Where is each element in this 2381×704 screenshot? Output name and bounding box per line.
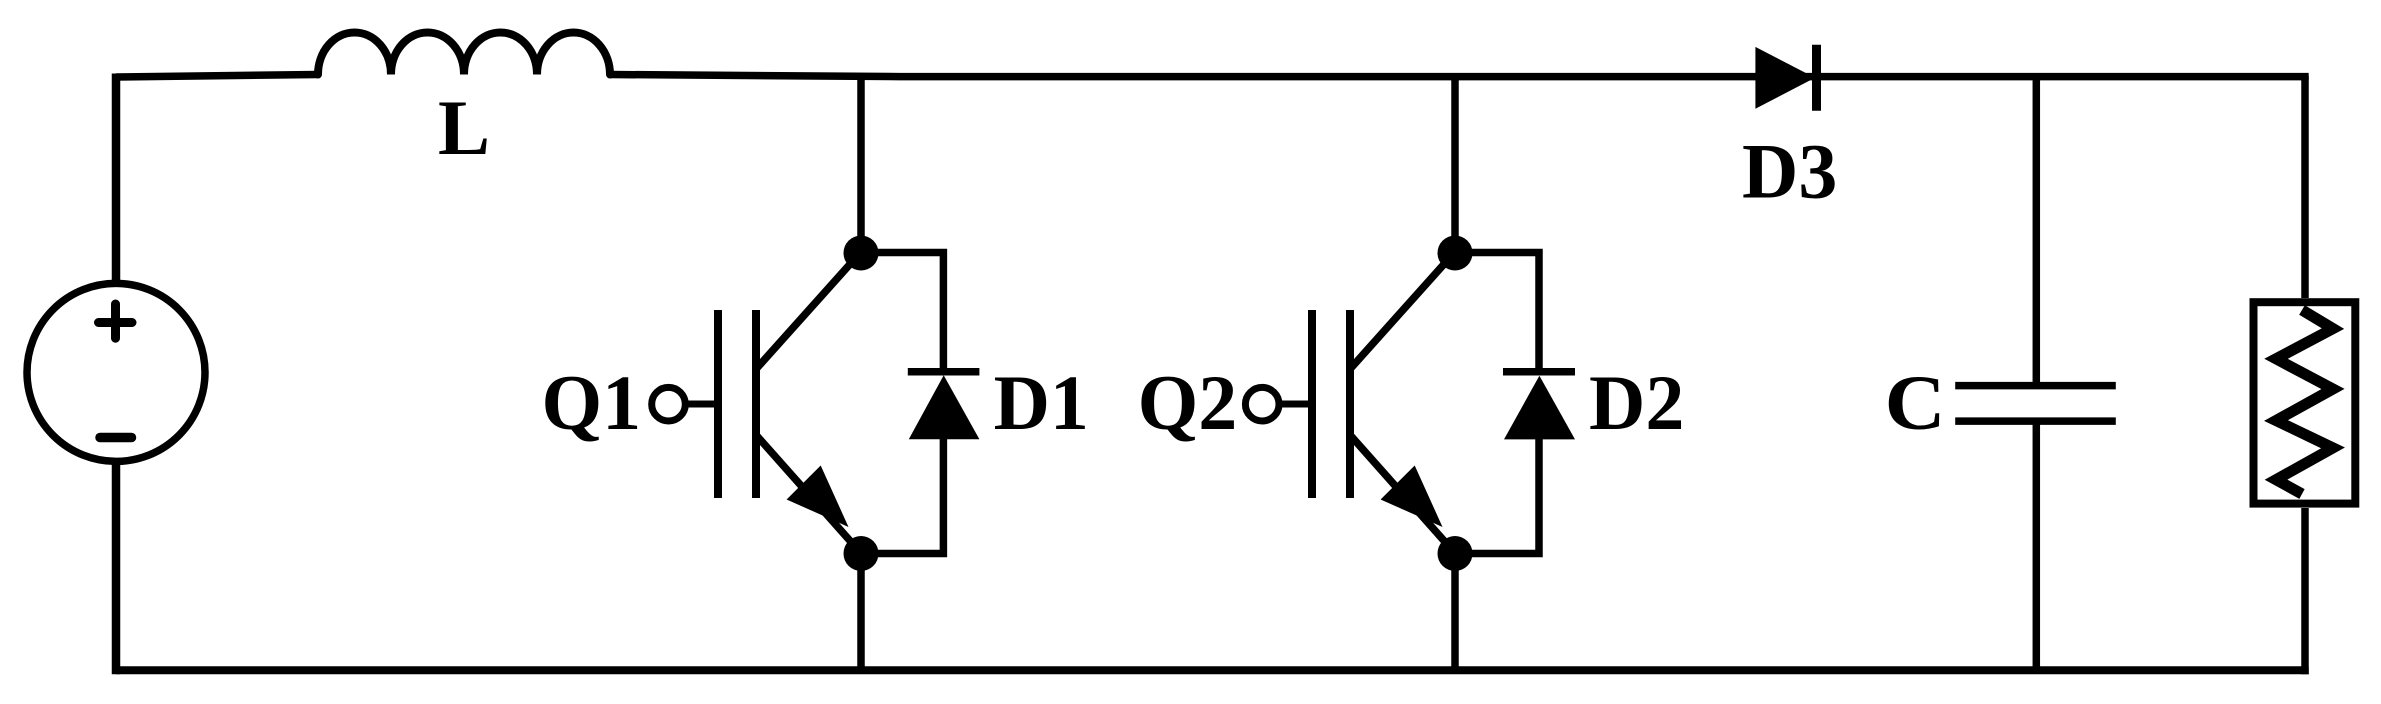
- wire Q2 collector drop: [1451, 76, 1459, 253]
- wire top rail right segment: [610, 75, 2309, 77]
- node Q2 bottom junction: [1438, 536, 1473, 571]
- label L: [438, 84, 490, 171]
- diode D3: [1755, 45, 1816, 111]
- inductor L: [318, 33, 610, 75]
- svg-text:L: L: [438, 84, 490, 171]
- wire left rail upper: [112, 74, 121, 285]
- wire right rail upper: [2301, 76, 2309, 298]
- wire Q1 emitter drop: [857, 554, 865, 671]
- wire capacitor bottom: [2033, 421, 2041, 670]
- wire D2 top link: [1455, 253, 1539, 373]
- node Q2 top junction: [1438, 236, 1473, 271]
- wire D1 bottom link: [861, 439, 943, 554]
- svg-text:D1: D1: [994, 359, 1089, 446]
- transistor Q2: [1245, 253, 1454, 552]
- voltage source V: [27, 283, 205, 461]
- label Q2: [1138, 359, 1238, 446]
- capacitor C: [1955, 386, 2116, 422]
- wire top rail left segment: [116, 75, 318, 78]
- diode D2: [1503, 372, 1575, 440]
- transistor Q1: [652, 253, 860, 552]
- node Q1 bottom junction: [844, 536, 879, 571]
- wire right rail lower: [2301, 508, 2309, 674]
- svg-text:C: C: [1885, 359, 1946, 446]
- label D1: [994, 359, 1089, 446]
- wire left rail lower: [112, 461, 121, 674]
- wire bottom rail: [116, 666, 2309, 674]
- label D3: [1742, 128, 1837, 215]
- wire capacitor top: [2033, 76, 2041, 386]
- svg-text:Q2: Q2: [1138, 359, 1238, 446]
- svg-text:D2: D2: [1589, 359, 1684, 446]
- label D2: [1589, 359, 1684, 446]
- wire Q1 collector drop: [857, 76, 865, 253]
- label C: [1885, 359, 1946, 446]
- resistor R load: [2254, 302, 2356, 503]
- diode D1: [908, 372, 980, 440]
- svg-text:Q1: Q1: [542, 359, 642, 446]
- wire D2 bottom link: [1455, 439, 1539, 554]
- svg-text:D3: D3: [1742, 128, 1837, 215]
- wire D1 top link: [861, 253, 943, 373]
- wire Q2 emitter drop: [1451, 554, 1459, 671]
- label Q1: [542, 359, 642, 446]
- node Q1 top junction: [844, 236, 879, 271]
